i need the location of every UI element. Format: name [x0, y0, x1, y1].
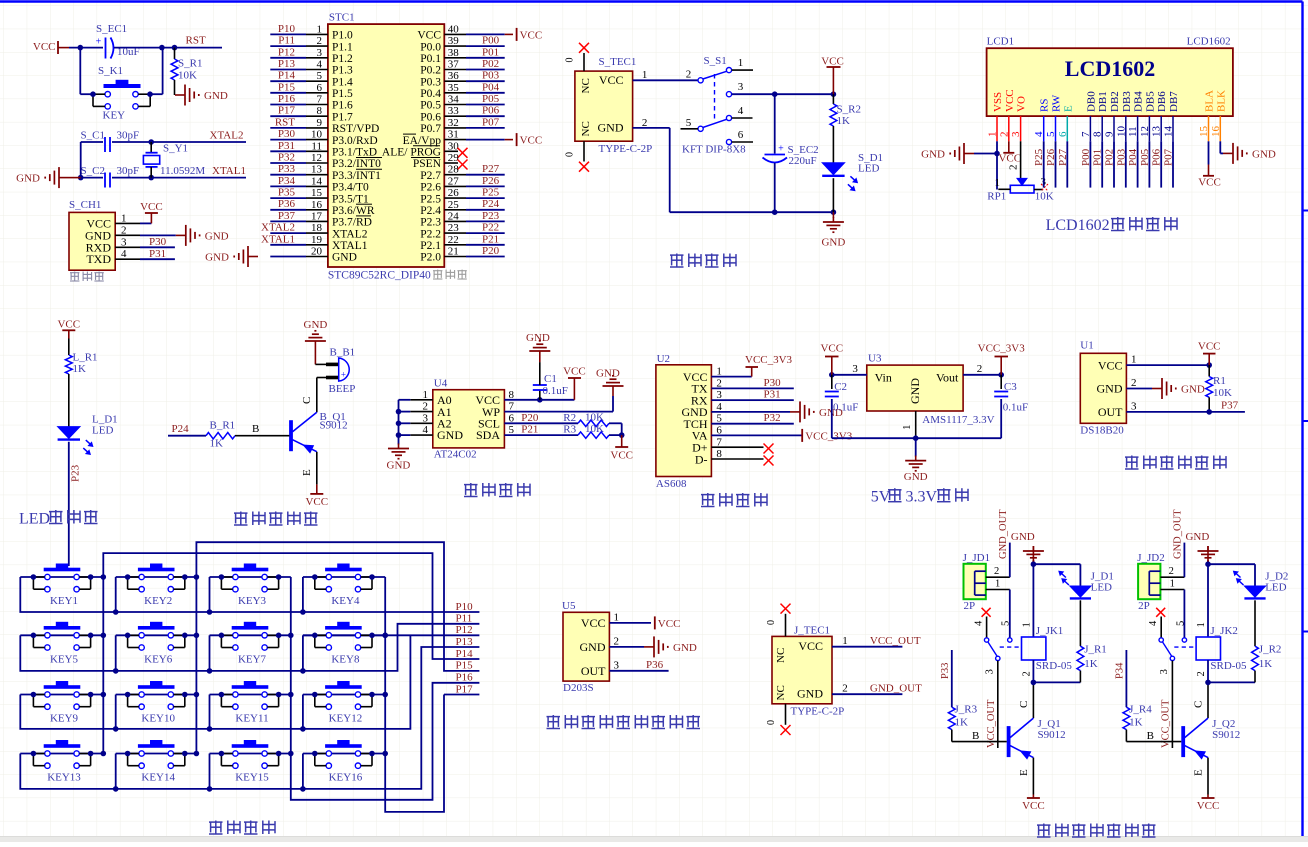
svg-text:1K: 1K — [1129, 717, 1143, 729]
svg-text:2: 2 — [1131, 377, 1137, 389]
svg-text:PSEN: PSEN — [413, 158, 442, 170]
svg-text:P1.1: P1.1 — [332, 41, 353, 53]
svg-text:J_TEC1: J_TEC1 — [794, 625, 830, 637]
svg-text:10K: 10K — [178, 70, 197, 82]
svg-text:R3: R3 — [563, 423, 576, 435]
svg-text:VCC: VCC — [821, 56, 844, 68]
svg-text:XTAL1: XTAL1 — [212, 165, 246, 177]
svg-text:GND: GND — [921, 149, 945, 161]
wire U4 pin5 SDA with net P21 and resistor R3 10K — [504, 434, 578, 436]
capacitor C2 0.1uF — [831, 375, 833, 389]
mcu pin 9 RST/VPD — [270, 127, 306, 129]
svg-text:J_JD1: J_JD1 — [963, 552, 991, 564]
keypad junction dot row2 column4 — [382, 633, 388, 639]
svg-text:B_B1: B_B1 — [330, 347, 356, 359]
svg-text:VCC: VCC — [417, 30, 441, 42]
svg-text:3: 3 — [1131, 400, 1137, 412]
svg-text:E: E — [1018, 769, 1030, 776]
svg-text:2: 2 — [686, 69, 692, 81]
svg-text:P24: P24 — [172, 423, 190, 435]
svg-text:VCC: VCC — [520, 29, 543, 41]
svg-text:5: 5 — [686, 117, 692, 129]
svg-text:S_C1: S_C1 — [81, 130, 105, 142]
caption buzzer circuit — [234, 512, 248, 514]
svg-text:GND: GND — [596, 368, 620, 380]
svg-text:2: 2 — [1008, 165, 1020, 171]
svg-text:P31: P31 — [149, 248, 166, 260]
svg-text:J_JD2: J_JD2 — [1137, 552, 1165, 564]
caption power circuit — [670, 254, 684, 256]
svg-text:VCC_3V3: VCC_3V3 — [978, 343, 1026, 355]
svg-text:30pF: 30pF — [117, 165, 140, 177]
capacitor S_EC2 220uF — [774, 94, 776, 153]
sheet border top edge — [0, 0, 1303, 2]
svg-text:S_Y1: S_Y1 — [163, 143, 188, 155]
keypad row2 bus net P11 — [20, 624, 479, 671]
svg-text:P31: P31 — [278, 140, 295, 152]
svg-text:B_R1: B_R1 — [210, 420, 236, 432]
wire left leg caps — [80, 142, 82, 178]
svg-text:P05: P05 — [1139, 148, 1151, 166]
U2 pin7 D+ no connect — [711, 446, 763, 448]
svg-text:P07: P07 — [482, 116, 500, 128]
svg-text:C1: C1 — [544, 373, 557, 385]
svg-text:P2.0: P2.0 — [420, 252, 441, 264]
svg-text:P21: P21 — [521, 423, 538, 435]
svg-text:17: 17 — [311, 210, 323, 222]
pushbutton KEY11 — [232, 685, 269, 689]
svg-text:10K: 10K — [1035, 191, 1054, 203]
svg-text:4: 4 — [1033, 131, 1045, 137]
svg-text:S_S1: S_S1 — [704, 55, 727, 67]
svg-text:KEY10: KEY10 — [141, 713, 175, 725]
svg-text:E: E — [1193, 769, 1205, 776]
svg-text:3: 3 — [738, 81, 744, 93]
svg-text:KEY2: KEY2 — [144, 595, 172, 607]
wire relay 2 pin2 rail — [1207, 660, 1209, 682]
svg-text:GND: GND — [205, 230, 229, 242]
svg-text:U4: U4 — [434, 378, 448, 390]
svg-text:VCC: VCC — [798, 639, 823, 653]
svg-text:VCC: VCC — [1198, 177, 1221, 189]
svg-text:P30: P30 — [764, 377, 782, 389]
no-ERC cross bottom J_TEC1 — [781, 725, 791, 735]
svg-text:S_TEC1: S_TEC1 — [599, 56, 637, 68]
power port VCC (U4) — [573, 378, 575, 400]
svg-text:LED: LED — [858, 163, 879, 175]
resistor S_R1 10K — [174, 48, 176, 59]
svg-text:P1.6: P1.6 — [332, 100, 353, 112]
svg-text:P0.4: P0.4 — [420, 88, 441, 100]
caption relay control circuit — [1037, 824, 1051, 826]
svg-text:S_CH1: S_CH1 — [69, 199, 101, 211]
svg-text:KEY16: KEY16 — [329, 772, 363, 784]
svg-text:S_R2: S_R2 — [837, 104, 861, 116]
svg-text:P2.1: P2.1 — [420, 240, 441, 252]
svg-text:GND: GND — [1011, 531, 1035, 543]
svg-text:R1: R1 — [1213, 375, 1226, 387]
mcu pin 2 P1.1 — [270, 45, 306, 47]
mcu pin 4 P1.3 — [270, 69, 306, 71]
wire U4 pin7 WP to ground — [504, 411, 613, 413]
svg-text:KEY8: KEY8 — [331, 653, 360, 665]
keypad row1 bus net P10 — [20, 577, 479, 612]
svg-text:P15: P15 — [456, 660, 474, 672]
svg-text:11: 11 — [1127, 126, 1139, 137]
svg-text:VCC: VCC — [1198, 341, 1221, 353]
mcu pin 7 P1.6 — [270, 104, 306, 106]
pushbutton KEY13 — [44, 744, 81, 748]
wire U5 pin2 to ground — [609, 646, 644, 648]
mcu pin 11 P3.1/TxD — [270, 150, 306, 152]
wire U2 pin4 to ground — [711, 411, 790, 413]
power port VCC_3V3 (U3 out) — [1000, 357, 1002, 375]
ground GND (U3) — [915, 438, 917, 456]
svg-text:GND: GND — [304, 319, 328, 331]
sheet border zone tick marks — [1303, 210, 1308, 212]
svg-text:P12: P12 — [456, 624, 473, 636]
svg-text:5: 5 — [317, 70, 323, 82]
svg-text:J_R3: J_R3 — [955, 704, 978, 716]
svg-text:0: 0 — [565, 58, 576, 63]
mcu pin 8 P1.7 — [270, 115, 306, 117]
wire U2 pin6 VCC_3V3 — [711, 434, 802, 436]
wire U2 pin2 net P30 — [711, 387, 793, 389]
svg-text:KEY3: KEY3 — [238, 595, 267, 607]
wire U5 pin3 net P36 — [609, 670, 668, 672]
svg-text:D203S: D203S — [563, 682, 594, 694]
svg-text:2: 2 — [977, 363, 983, 375]
svg-text:P3.0/RxD: P3.0/RxD — [332, 135, 378, 147]
svg-text:2: 2 — [121, 224, 127, 236]
pushbutton KEY15 — [232, 744, 269, 748]
svg-text:KEY7: KEY7 — [238, 653, 267, 665]
svg-text:P35: P35 — [278, 187, 296, 199]
lcd pin3 VO wire to potentiometer wiper — [1020, 141, 1022, 178]
relay J_JK2 SRD-05 — [1196, 637, 1220, 660]
wire U1 pin3 net P37 — [1126, 411, 1245, 413]
wire S_CH1 pin4 net P31 — [140, 258, 175, 260]
pushbutton KEY5 — [44, 626, 81, 630]
svg-text:1: 1 — [1196, 622, 1207, 627]
svg-text:OUT: OUT — [581, 664, 606, 678]
svg-text:VCC: VCC — [563, 366, 586, 378]
svg-text:P0.1: P0.1 — [420, 53, 441, 65]
svg-text:P13: P13 — [456, 636, 474, 648]
svg-text:0.1uF: 0.1uF — [833, 402, 858, 414]
keypad drop wires to row buses — [115, 577, 117, 612]
svg-text:J_R2: J_R2 — [1259, 644, 1282, 656]
svg-text:LED: LED — [1265, 582, 1286, 594]
svg-text:GND: GND — [437, 428, 463, 442]
wire U1 pin2 to ground — [1126, 388, 1152, 390]
svg-text:P36: P36 — [278, 198, 296, 210]
lcd pins 4-6 wires with net labels P25 P26 P27 — [1043, 141, 1045, 187]
svg-text:SDA: SDA — [476, 428, 500, 442]
svg-text:RP1: RP1 — [987, 191, 1006, 203]
svg-text:3: 3 — [423, 412, 429, 424]
svg-text:P02: P02 — [482, 58, 499, 70]
svg-text:P0.6: P0.6 — [420, 111, 441, 123]
svg-text:VCC_3V3: VCC_3V3 — [805, 430, 853, 442]
svg-text:3: 3 — [1010, 131, 1022, 137]
wire S_CH1 pin3 net P30 — [140, 246, 175, 248]
svg-text:3: 3 — [317, 47, 323, 59]
svg-text:1: 1 — [614, 611, 620, 623]
svg-text:B: B — [252, 423, 259, 435]
resistor J_R4 1K base — [1126, 741, 1181, 743]
caption MCU — [433, 270, 442, 272]
svg-text:1K: 1K — [1259, 658, 1273, 670]
pushbutton KEY10 — [138, 685, 175, 689]
svg-text:EA/Vpp: EA/Vpp — [403, 135, 442, 147]
connector J_JD2 2P — [1138, 564, 1160, 599]
svg-text:C: C — [1193, 701, 1205, 708]
svg-text:VCC: VCC — [581, 616, 606, 630]
svg-text:P13: P13 — [278, 58, 296, 70]
svg-text:15: 15 — [311, 187, 323, 199]
svg-text:P00: P00 — [1080, 148, 1092, 166]
svg-text:C3: C3 — [1004, 381, 1017, 393]
svg-text:LED: LED — [92, 425, 113, 437]
svg-text:6: 6 — [738, 129, 744, 141]
svg-text:P33: P33 — [278, 163, 296, 175]
svg-text:P3.4/T0: P3.4/T0 — [332, 182, 369, 194]
svg-text:GND: GND — [904, 471, 928, 483]
svg-text:KEY5: KEY5 — [50, 653, 79, 665]
svg-text:VCC_OUT: VCC_OUT — [1161, 699, 1172, 748]
svg-text:RST/VPD: RST/VPD — [332, 123, 379, 135]
keypad column 3 bus — [291, 577, 480, 800]
svg-text:P23: P23 — [482, 210, 500, 222]
switch pin4 no connect (relay 2) — [1156, 608, 1165, 617]
svg-text:2: 2 — [614, 635, 620, 647]
svg-text:2P: 2P — [964, 600, 976, 612]
wire U5 pin1 VCC — [609, 622, 651, 624]
pushbutton KEY16 — [325, 744, 362, 748]
svg-text:4: 4 — [317, 59, 323, 71]
svg-text:P2.5: P2.5 — [420, 193, 441, 205]
svg-text:C: C — [1018, 701, 1030, 708]
ground GND (reset) — [175, 94, 185, 96]
svg-text:P0.2: P0.2 — [420, 65, 441, 77]
wire S_CH1 pin1 to VCC — [140, 222, 151, 224]
svg-text:P06: P06 — [1151, 148, 1163, 166]
svg-text:VCC: VCC — [1098, 358, 1123, 372]
svg-text:U2: U2 — [657, 353, 670, 365]
svg-text:U1: U1 — [1080, 340, 1093, 352]
svg-text:SRD-05: SRD-05 — [1210, 660, 1247, 672]
svg-text:AS608: AS608 — [656, 478, 687, 490]
svg-text:P2.3: P2.3 — [420, 217, 441, 229]
svg-text:VCC_OUT: VCC_OUT — [986, 699, 997, 748]
svg-text:VCC: VCC — [520, 135, 543, 147]
svg-text:VSS: VSS — [992, 92, 1004, 112]
keypad junction dots on column buses — [101, 574, 107, 580]
mcu pin 3 P1.2 — [270, 57, 306, 59]
svg-text:P26: P26 — [482, 175, 500, 187]
svg-text:GND: GND — [204, 90, 228, 102]
mcu pin 19 XTAL1 — [270, 244, 306, 246]
svg-text:P2.6: P2.6 — [420, 182, 441, 194]
svg-text:5: 5 — [1001, 621, 1012, 626]
wire U2 pin5 net P32 — [711, 423, 793, 425]
lcd LCD1602 body — [987, 48, 1233, 116]
svg-text:1: 1 — [987, 132, 999, 138]
svg-text:KEY13: KEY13 — [47, 772, 81, 784]
pushbutton KEY12 — [325, 685, 362, 689]
svg-text:E: E — [1062, 105, 1074, 112]
svg-text:VCC: VCC — [658, 618, 681, 630]
wire net P33 (relay 1) — [951, 650, 953, 707]
svg-text:4: 4 — [1148, 620, 1159, 626]
svg-text:P10: P10 — [456, 601, 474, 613]
svg-text:P06: P06 — [482, 105, 500, 117]
svg-text:AT24C02: AT24C02 — [434, 449, 477, 461]
svg-text:LCD1602: LCD1602 — [1187, 36, 1231, 48]
switch lever (relay 2) — [1162, 642, 1171, 657]
keypad bus line B — [103, 553, 479, 753]
svg-text:+: + — [96, 37, 102, 48]
mcu pin 12 P3.2/INT0 — [270, 162, 306, 164]
resistor J_R2 1K — [1252, 646, 1259, 670]
switch lever (relay 1) — [988, 642, 997, 657]
mcu pin 6 P1.5 — [270, 92, 306, 94]
svg-text:P30: P30 — [278, 128, 296, 140]
lcd pin16 BLK wire to ground — [1219, 141, 1221, 153]
wire to buzzer — [315, 363, 326, 365]
pushbutton KEY8 — [325, 626, 362, 630]
svg-text:P07: P07 — [1163, 148, 1175, 166]
svg-text:GND: GND — [673, 642, 697, 654]
svg-text:KEY14: KEY14 — [141, 772, 175, 784]
svg-text:C2: C2 — [834, 381, 847, 393]
wire U4 pin8 VCC — [504, 399, 539, 401]
svg-text:2: 2 — [317, 35, 323, 47]
transistor B_Q1 S9012 — [289, 420, 293, 451]
svg-text:0.1uF: 0.1uF — [1003, 402, 1028, 414]
U2 pin8 D- no connect — [711, 458, 763, 460]
caption matrix keypad — [209, 821, 223, 823]
svg-text:P31: P31 — [764, 389, 781, 401]
svg-text:6: 6 — [1057, 131, 1069, 137]
svg-text:P30: P30 — [149, 236, 167, 248]
svg-text:BLK: BLK — [1215, 90, 1227, 112]
svg-text:P14: P14 — [278, 70, 296, 82]
svg-text:TYPE-C-2P: TYPE-C-2P — [791, 706, 845, 718]
svg-text:P04: P04 — [1127, 148, 1139, 166]
fingerprint U2 AS608 — [656, 365, 712, 477]
svg-text:16: 16 — [1210, 126, 1222, 138]
svg-text:2: 2 — [1022, 671, 1033, 676]
mcu pin 10 P3.0/RxD — [270, 139, 306, 141]
svg-text:9: 9 — [1104, 131, 1116, 137]
svg-text:2P: 2P — [1138, 600, 1150, 612]
mcu pin 18 XTAL2 — [270, 232, 306, 234]
svg-text:VCC: VCC — [820, 343, 843, 355]
wire relay 1 pin2 rail — [1032, 660, 1034, 682]
svg-text:12: 12 — [1139, 126, 1151, 137]
svg-text:P04: P04 — [482, 81, 500, 93]
svg-text:J_R4: J_R4 — [1129, 704, 1152, 716]
connector J_JD1 2P — [964, 564, 986, 599]
svg-text:P03: P03 — [482, 70, 500, 82]
svg-text:S_R1: S_R1 — [178, 58, 202, 70]
svg-text:P0.5: P0.5 — [420, 100, 441, 112]
led L_D1 LED — [58, 427, 80, 439]
svg-text:GND: GND — [332, 252, 357, 264]
svg-text:VCC: VCC — [998, 153, 1021, 165]
wire net P23 — [68, 442, 70, 566]
svg-text:J_JK1: J_JK1 — [1036, 625, 1064, 637]
svg-text:P11: P11 — [278, 35, 295, 47]
ground GND (lcd left) — [974, 153, 997, 155]
svg-text:S9012: S9012 — [320, 420, 348, 432]
lcd pin2 VCC power port — [1008, 141, 1010, 153]
wire emitter to VCC (relay 2) — [1207, 758, 1209, 795]
lcd pin15 BLA wire to VCC — [1208, 141, 1210, 164]
svg-text:9: 9 — [317, 117, 323, 129]
svg-text:STC1: STC1 — [329, 12, 355, 24]
svg-text:P37: P37 — [278, 210, 296, 222]
svg-text:P3.2/INT0: P3.2/INT0 — [332, 158, 381, 170]
svg-text:KEY11: KEY11 — [235, 713, 268, 725]
svg-text:P2.4: P2.4 — [420, 205, 441, 217]
svg-text:Vout: Vout — [936, 371, 959, 385]
keypad row4 bus net P13 — [20, 647, 479, 789]
ground GND (U4) — [398, 444, 400, 449]
svg-text:6: 6 — [317, 82, 323, 94]
svg-text:P32: P32 — [764, 412, 781, 424]
svg-text:1: 1 — [901, 425, 913, 431]
svg-text:1: 1 — [995, 578, 1000, 589]
svg-text:P22: P22 — [482, 222, 499, 234]
svg-text:GND: GND — [387, 460, 411, 472]
svg-text:GND: GND — [908, 378, 922, 404]
svg-text:P24: P24 — [482, 198, 500, 210]
svg-text:P20: P20 — [521, 412, 539, 424]
svg-text:P3.5/T1: P3.5/T1 — [332, 193, 369, 205]
svg-text:P26: P26 — [1045, 148, 1057, 166]
transistor J_Q2 S9012 — [1181, 726, 1185, 757]
lcd pins 7-14 wires with net labels P00-P07 — [1089, 141, 1091, 187]
svg-text:P1.3: P1.3 — [332, 65, 353, 77]
svg-text:KEY: KEY — [103, 110, 126, 122]
svg-text:0: 0 — [766, 620, 777, 625]
svg-text:LED: LED — [1091, 582, 1112, 594]
svg-text:4: 4 — [974, 620, 985, 626]
svg-text:2: 2 — [994, 566, 999, 577]
lcd pin1 VSS wire to ground — [996, 141, 998, 189]
svg-text:10: 10 — [1115, 126, 1127, 138]
svg-text:4: 4 — [121, 248, 127, 260]
svg-text:GND: GND — [580, 640, 606, 654]
svg-text:13: 13 — [311, 164, 323, 176]
svg-text:14: 14 — [311, 175, 323, 187]
resistor J_R3 1K base — [952, 741, 1007, 743]
svg-text:STC89C52RC_DIP40: STC89C52RC_DIP40 — [328, 270, 431, 282]
wire U1 pin1 VCC — [1126, 364, 1209, 366]
svg-text:P1.2: P1.2 — [332, 53, 353, 65]
svg-text:0.1uF: 0.1uF — [543, 385, 568, 397]
power port VCC (led circuit) — [62, 329, 75, 331]
led S_D1 LED — [822, 163, 844, 175]
svg-text:13: 13 — [1151, 126, 1163, 138]
pushbutton S_K1 KEY — [104, 84, 141, 88]
svg-text:DB0: DB0 — [1085, 91, 1097, 112]
svg-text:1: 1 — [317, 23, 323, 35]
svg-text:GND: GND — [1252, 148, 1276, 160]
